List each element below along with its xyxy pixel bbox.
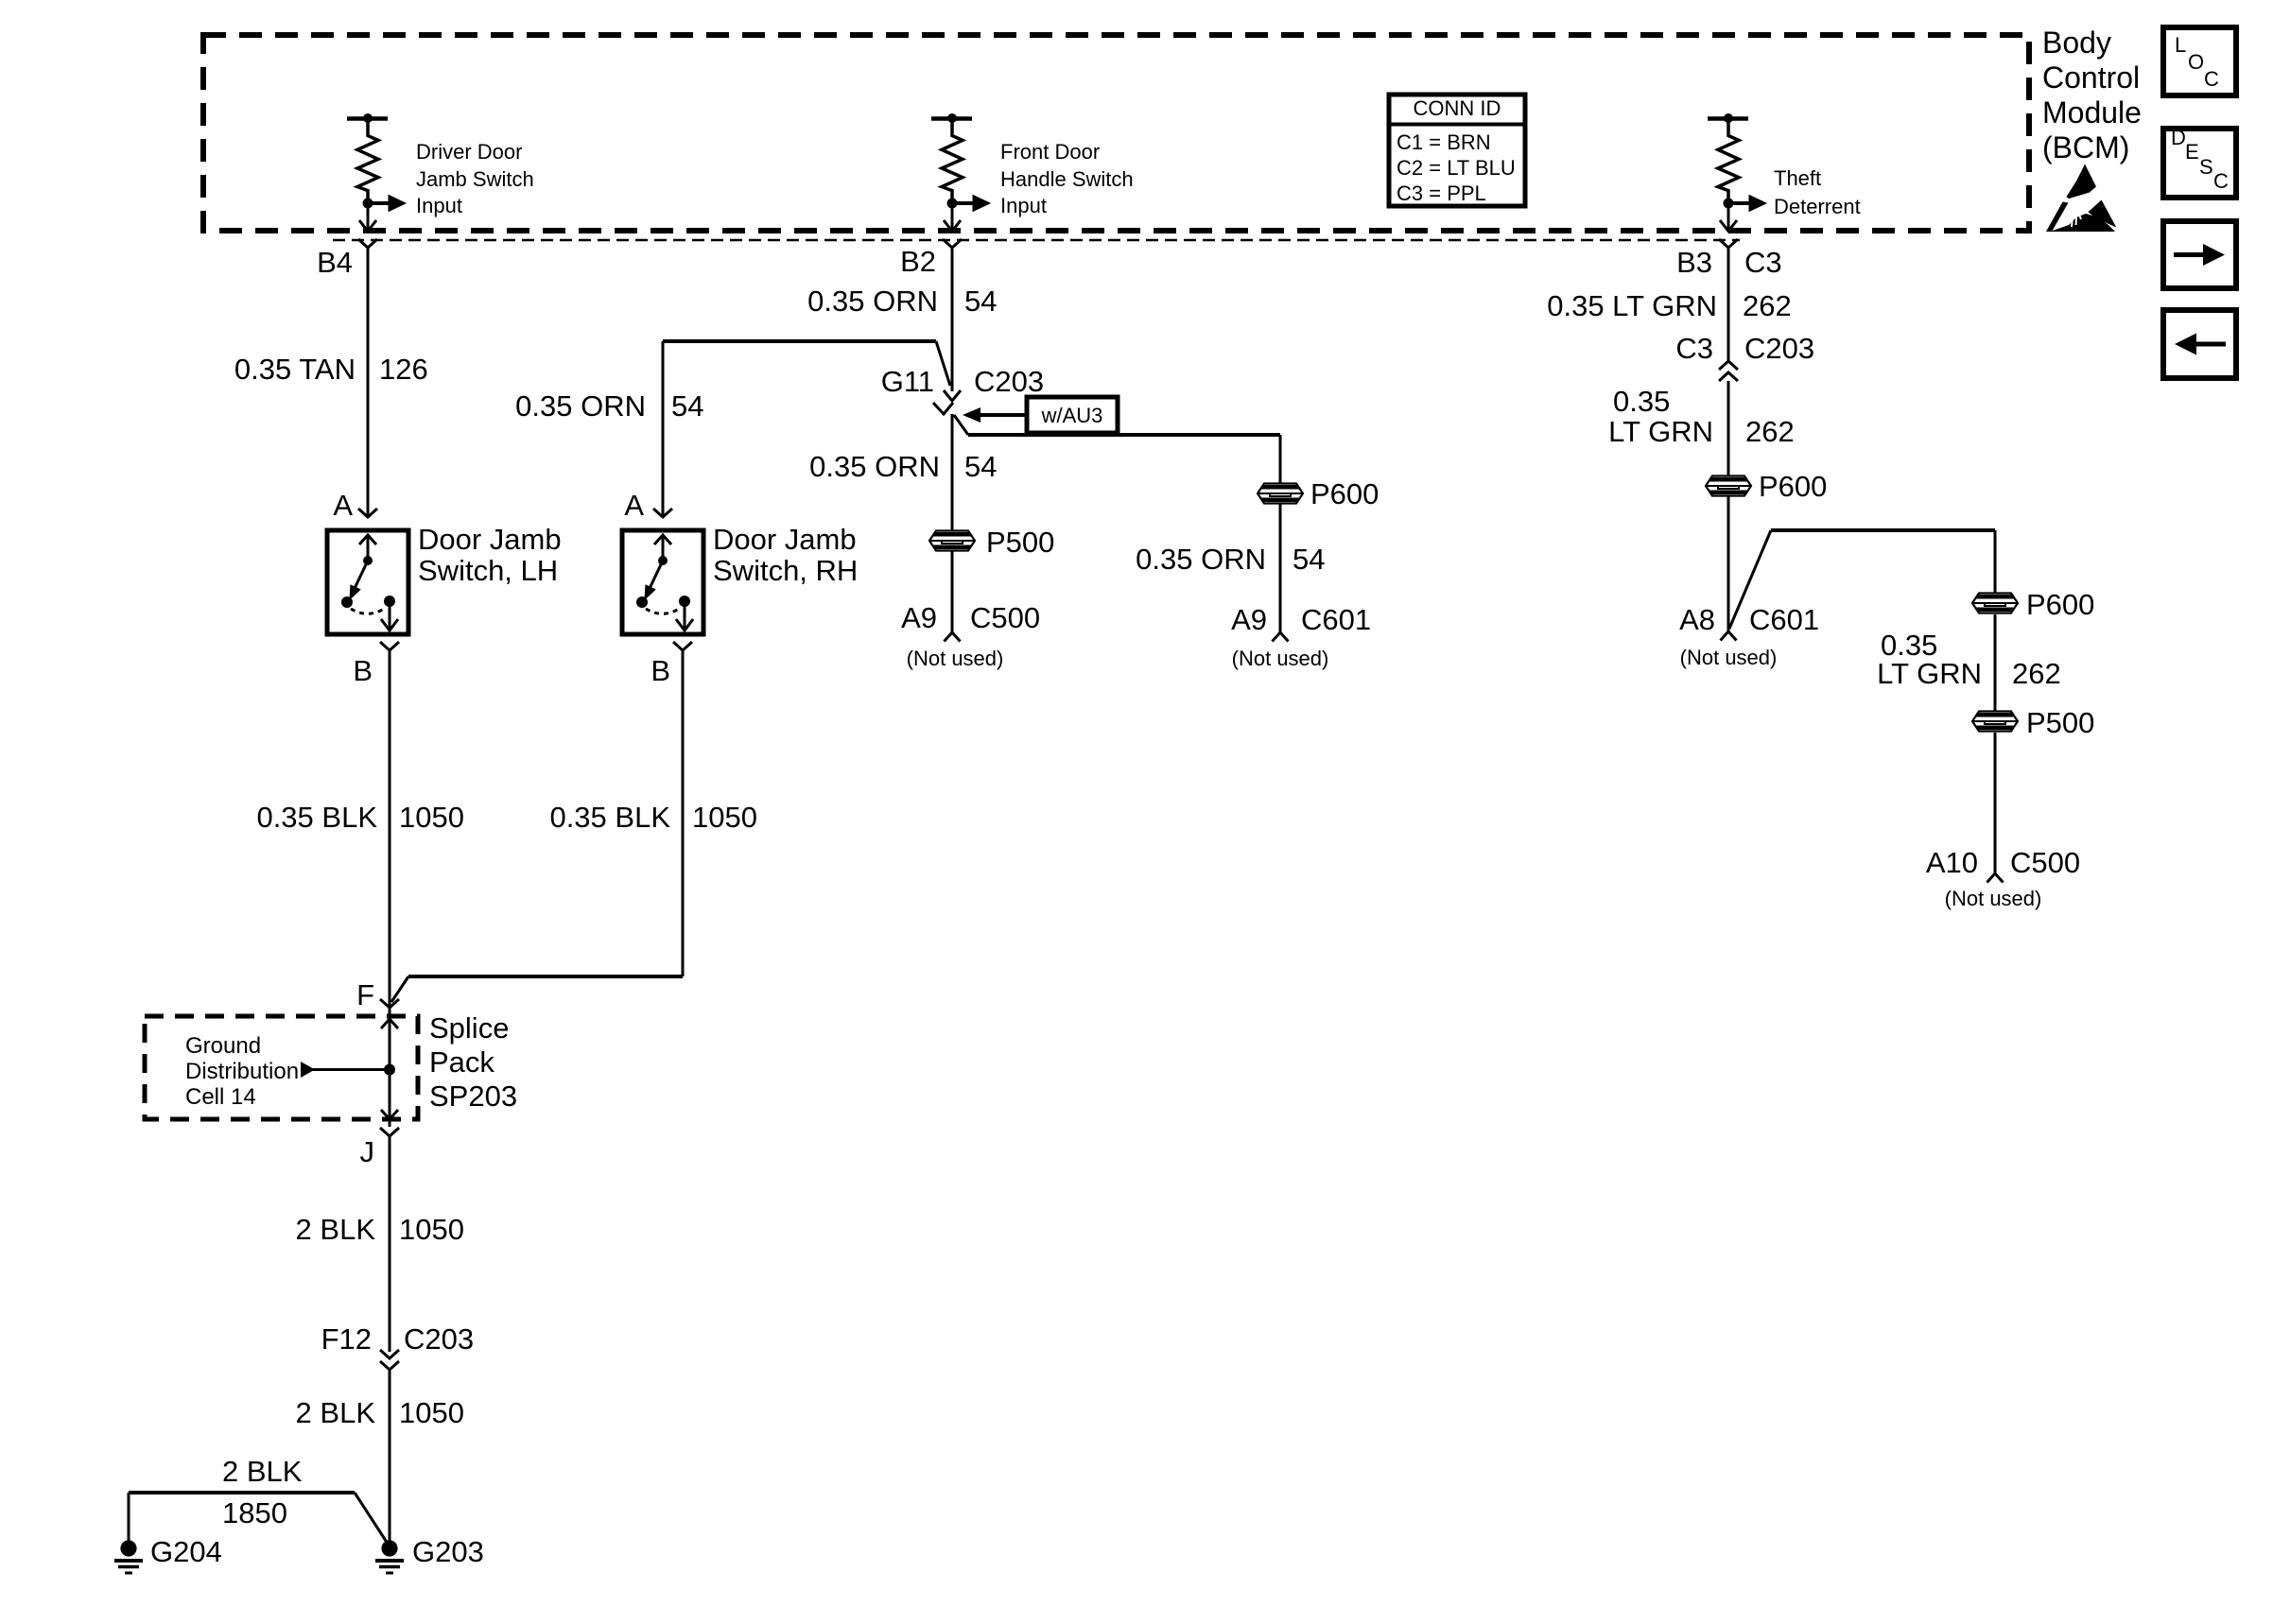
svg-text:(BCM): (BCM) <box>2042 130 2129 164</box>
svg-text:B3: B3 <box>1676 246 1712 279</box>
svg-text:0.35 LT GRN: 0.35 LT GRN <box>1547 289 1717 322</box>
svg-text:P500: P500 <box>986 526 1054 559</box>
svg-text:P600: P600 <box>2026 588 2094 621</box>
svg-text:O: O <box>2188 50 2204 74</box>
svg-text:2 BLK: 2 BLK <box>222 1455 303 1488</box>
svg-text:Body: Body <box>2042 26 2111 60</box>
svg-text:A10: A10 <box>1926 846 1978 879</box>
svg-text:0.35 TAN: 0.35 TAN <box>234 353 356 386</box>
svg-text:1050: 1050 <box>399 1396 464 1429</box>
svg-text:C3 = PPL: C3 = PPL <box>1397 181 1486 205</box>
svg-text:Input: Input <box>416 194 462 217</box>
svg-text:C601: C601 <box>1301 603 1371 636</box>
svg-text:C3: C3 <box>1744 246 1782 279</box>
svg-text:C3: C3 <box>1675 332 1713 365</box>
svg-text:D: D <box>2171 126 2186 149</box>
svg-text:126: 126 <box>379 353 428 386</box>
svg-text:0.35: 0.35 <box>1613 385 1670 418</box>
svg-text:B2: B2 <box>900 245 936 278</box>
svg-text:1050: 1050 <box>399 801 464 834</box>
svg-text:54: 54 <box>964 450 997 483</box>
svg-text:(Not used): (Not used) <box>1945 887 2042 910</box>
svg-text:C: C <box>2204 67 2219 91</box>
svg-text:0.35 ORN: 0.35 ORN <box>807 285 938 318</box>
svg-text:P600: P600 <box>1310 477 1379 510</box>
svg-text:Cell 14: Cell 14 <box>185 1084 256 1110</box>
svg-text:SP203: SP203 <box>429 1080 517 1113</box>
svg-text:0.35 ORN: 0.35 ORN <box>809 450 940 483</box>
svg-text:262: 262 <box>1745 415 1795 448</box>
svg-text:1850: 1850 <box>222 1496 287 1529</box>
svg-text:E: E <box>2185 140 2199 164</box>
svg-text:C500: C500 <box>2010 846 2080 879</box>
svg-text:Distribution: Distribution <box>185 1059 299 1084</box>
svg-text:54: 54 <box>1293 543 1325 576</box>
svg-text:Module: Module <box>2042 95 2142 130</box>
svg-text:Door Jamb: Door Jamb <box>713 523 857 556</box>
svg-text:Door Jamb: Door Jamb <box>418 523 562 556</box>
svg-text:C1 = BRN: C1 = BRN <box>1397 130 1491 154</box>
svg-text:G204: G204 <box>150 1535 222 1568</box>
svg-text:C601: C601 <box>1749 603 1819 636</box>
svg-text:2 BLK: 2 BLK <box>296 1213 376 1246</box>
svg-text:1050: 1050 <box>399 1213 464 1246</box>
svg-text:w/AU3: w/AU3 <box>1041 404 1103 427</box>
svg-text:F12: F12 <box>321 1322 372 1356</box>
svg-text:262: 262 <box>2012 657 2061 690</box>
svg-text:A: A <box>333 489 353 522</box>
svg-text:Control: Control <box>2042 60 2140 95</box>
svg-text:J: J <box>360 1135 375 1168</box>
svg-text:C203: C203 <box>1744 332 1814 365</box>
svg-text:A: A <box>624 489 644 522</box>
svg-text:G11: G11 <box>881 365 934 398</box>
svg-text:F: F <box>356 978 374 1011</box>
svg-text:Handle Switch: Handle Switch <box>1000 167 1134 191</box>
svg-text:B: B <box>353 654 373 687</box>
svg-text:54: 54 <box>671 389 703 423</box>
svg-text:1050: 1050 <box>692 801 757 834</box>
svg-text:B: B <box>651 654 670 687</box>
svg-text:(Not used): (Not used) <box>1680 646 1778 669</box>
svg-text:0.35 ORN: 0.35 ORN <box>515 389 646 423</box>
svg-text:Switch, LH: Switch, LH <box>418 554 558 587</box>
svg-text:S: S <box>2199 155 2213 179</box>
svg-text:0.35 BLK: 0.35 BLK <box>549 801 670 834</box>
svg-text:0.35 ORN: 0.35 ORN <box>1136 543 1266 576</box>
svg-text:B4: B4 <box>317 246 353 279</box>
svg-text:Switch, RH: Switch, RH <box>713 554 858 587</box>
svg-text:Driver Door: Driver Door <box>416 140 522 164</box>
svg-text:C: C <box>2213 169 2229 193</box>
svg-text:C2 = LT BLU: C2 = LT BLU <box>1397 156 1516 180</box>
svg-text:LT GRN: LT GRN <box>1877 657 1982 690</box>
svg-text:Input: Input <box>1000 194 1047 217</box>
svg-text:A9: A9 <box>1231 603 1267 636</box>
svg-text:CONN ID: CONN ID <box>1414 96 1501 120</box>
svg-text:Front Door: Front Door <box>1000 140 1100 164</box>
svg-text:A8: A8 <box>1679 603 1715 636</box>
svg-text:(Not used): (Not used) <box>907 647 1004 670</box>
svg-text:C203: C203 <box>404 1322 474 1356</box>
svg-text:Theft: Theft <box>1774 166 1821 190</box>
svg-text:Deterrent: Deterrent <box>1774 195 1861 218</box>
svg-text:0.35 BLK: 0.35 BLK <box>256 801 377 834</box>
svg-text:G203: G203 <box>412 1535 484 1568</box>
svg-text:Jamb Switch: Jamb Switch <box>416 167 534 191</box>
svg-text:Ground: Ground <box>185 1033 261 1059</box>
svg-text:Pack: Pack <box>429 1045 495 1079</box>
svg-text:P500: P500 <box>2026 706 2094 739</box>
svg-text:P600: P600 <box>1759 470 1827 503</box>
svg-text:LT GRN: LT GRN <box>1608 415 1713 448</box>
svg-text:C500: C500 <box>970 601 1040 634</box>
svg-text:A9: A9 <box>901 601 937 634</box>
svg-text:C203: C203 <box>974 365 1044 398</box>
svg-text:262: 262 <box>1743 289 1792 322</box>
svg-text:L: L <box>2175 33 2186 57</box>
svg-text:2 BLK: 2 BLK <box>296 1396 376 1429</box>
svg-text:Splice: Splice <box>429 1011 509 1045</box>
svg-text:(Not used): (Not used) <box>1232 647 1329 670</box>
svg-text:54: 54 <box>964 285 997 318</box>
